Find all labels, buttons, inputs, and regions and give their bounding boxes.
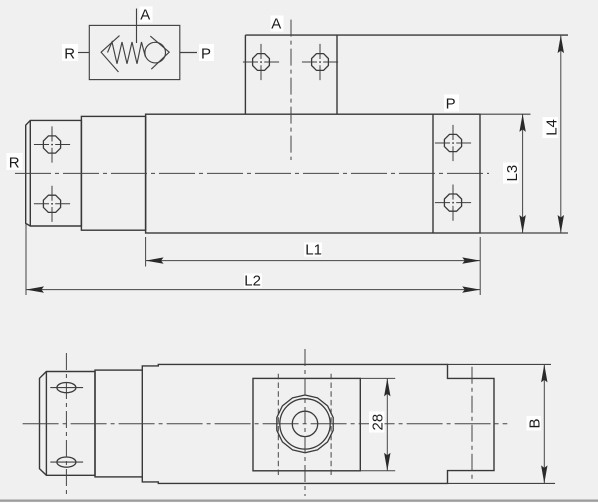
P flange hole top crosshair bbox=[435, 125, 471, 161]
body bottom edge L3/L4 extension bbox=[480, 232, 568, 234]
B arrow top bbox=[541, 364, 547, 382]
svg-text:28: 28 bbox=[370, 414, 387, 431]
port vertical centerline bbox=[304, 349, 306, 496]
svg-text:P: P bbox=[201, 46, 211, 63]
B arrow bottom bbox=[541, 465, 547, 483]
wire P lead bbox=[180, 52, 197, 54]
L2 arrow right bbox=[462, 286, 480, 292]
L3 text background bbox=[503, 163, 519, 184]
P flange hole bottom bbox=[444, 194, 461, 211]
bracket hole right crosshair bbox=[302, 44, 338, 80]
port boss square bbox=[253, 378, 360, 470]
bracket hole right bbox=[312, 54, 329, 71]
L4 arrow bottom bbox=[558, 215, 564, 233]
flange hole bottom bbox=[43, 195, 60, 212]
L1 extension line left bbox=[145, 237, 147, 267]
svg-text:B: B bbox=[527, 418, 544, 428]
right tongue centerline bbox=[471, 367, 473, 481]
flange hole bottom crosshair bbox=[34, 186, 70, 222]
top bracket top edge + L4 extension line bbox=[245, 34, 568, 36]
slot vertical centerline bbox=[65, 353, 67, 494]
valve seat chevron right bbox=[150, 36, 169, 69]
L1 text background bbox=[304, 243, 322, 257]
bracket hole left bbox=[253, 54, 270, 71]
28 extension line top bbox=[360, 377, 395, 379]
port hidden line right bbox=[330, 374, 332, 476]
bracket hole left crosshair bbox=[243, 44, 279, 80]
port thread circle bbox=[280, 399, 330, 449]
L1 arrow right bbox=[462, 257, 480, 263]
check ball bbox=[145, 42, 166, 63]
28 arrow bottom bbox=[384, 453, 390, 471]
main body bbox=[146, 114, 480, 233]
wire A lead bbox=[136, 9, 138, 44]
flange hole top bbox=[43, 136, 60, 153]
L4 arrow top bbox=[558, 35, 564, 53]
collar section bbox=[81, 116, 145, 230]
L4 text background bbox=[543, 117, 559, 138]
body top edge L3 extension bbox=[480, 113, 531, 115]
port hidden line left bbox=[277, 374, 279, 476]
svg-text:L4: L4 bbox=[544, 119, 561, 136]
top bracket right edge bbox=[336, 35, 338, 114]
svg-text:P: P bbox=[446, 96, 456, 113]
label A front view background bbox=[271, 16, 284, 32]
bracket vertical centerline bbox=[290, 20, 292, 160]
label A background bbox=[140, 7, 153, 23]
bottom window bar bbox=[0, 500, 598, 502]
P flange hole bottom crosshair bbox=[435, 185, 471, 221]
bottom view left flange outline bbox=[40, 372, 96, 476]
28 text background bbox=[369, 412, 385, 433]
top bracket left edge bbox=[244, 35, 246, 114]
B text background bbox=[527, 416, 542, 431]
flange hole top crosshair bbox=[34, 126, 70, 162]
bottom white strip bbox=[0, 502, 598, 503]
port outer circle bbox=[277, 395, 333, 453]
svg-text:A: A bbox=[271, 16, 281, 33]
L3 dimension line bbox=[522, 114, 524, 233]
bottom view collar bbox=[95, 370, 142, 477]
L2 text background bbox=[244, 274, 262, 288]
L3 arrow top bbox=[519, 114, 525, 132]
valve seat chevron left bbox=[101, 36, 119, 72]
svg-text:L3: L3 bbox=[504, 165, 521, 182]
L2 dimension line bbox=[26, 289, 480, 291]
28 extension line bottom bbox=[360, 470, 395, 472]
L1/L2 extension line right bbox=[479, 237, 481, 295]
label R background bbox=[62, 44, 78, 61]
label P front view background bbox=[444, 95, 459, 112]
label R front view background bbox=[7, 153, 23, 170]
svg-text:A: A bbox=[140, 7, 150, 24]
P flange hole top bbox=[444, 134, 461, 151]
port bore circle bbox=[292, 411, 317, 436]
L4 dimension line bbox=[560, 35, 562, 233]
slot hole top crosshair bbox=[50, 387, 83, 389]
L1 dimension line bbox=[146, 260, 481, 262]
slot hole bottom bbox=[57, 457, 76, 467]
body top edge B extension bbox=[448, 363, 552, 365]
P flange left edge bbox=[432, 114, 434, 233]
wire R lead bbox=[78, 52, 90, 54]
slot hole bottom crosshair bbox=[50, 461, 83, 463]
horizontal centerline front view bbox=[15, 172, 489, 174]
slot hole top bbox=[57, 383, 76, 393]
bottom view left flange inner edge bbox=[45, 372, 47, 476]
28 dimension line bbox=[386, 378, 388, 470]
spring bbox=[108, 42, 146, 64]
L3 arrow bottom bbox=[519, 215, 525, 233]
label P background bbox=[199, 44, 214, 61]
symbol body box bbox=[89, 25, 180, 79]
bottom view horizontal centerline bbox=[23, 423, 508, 425]
left flange inner edge bbox=[29, 120, 31, 226]
svg-text:L1: L1 bbox=[305, 242, 322, 259]
L2 arrow left bbox=[26, 286, 44, 292]
body bottom edge B extension bbox=[448, 482, 556, 484]
svg-text:L2: L2 bbox=[244, 273, 261, 290]
28 arrow top bbox=[384, 378, 390, 396]
left flange outline bbox=[26, 120, 82, 226]
L2 extension line left bbox=[25, 224, 27, 296]
svg-text:R: R bbox=[64, 46, 75, 63]
bottom view step section + body outline bbox=[142, 364, 494, 483]
svg-text:R: R bbox=[9, 155, 20, 172]
B dimension line bbox=[543, 364, 545, 483]
L1 arrow left bbox=[146, 257, 164, 263]
